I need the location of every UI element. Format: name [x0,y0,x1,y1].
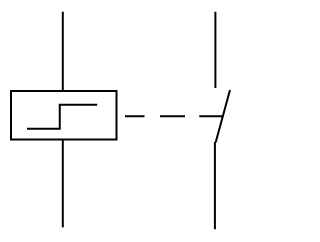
mechanical linkage (dashed), dash 2 [160,115,185,117]
wire: right bottom lead [214,142,216,229]
wire: left top lead [62,12,64,90]
mechanical linkage (dashed), dash 1 [125,115,145,117]
wire: right top lead [214,12,216,88]
contact blade (normally open switch) [216,90,230,142]
component box (level-operated switching device) [11,91,117,140]
step (hysteresis) symbol inside box [27,105,97,129]
wire: left bottom lead [62,141,64,228]
mechanical linkage (dashed), dash 3 to contact blade [199,115,222,117]
